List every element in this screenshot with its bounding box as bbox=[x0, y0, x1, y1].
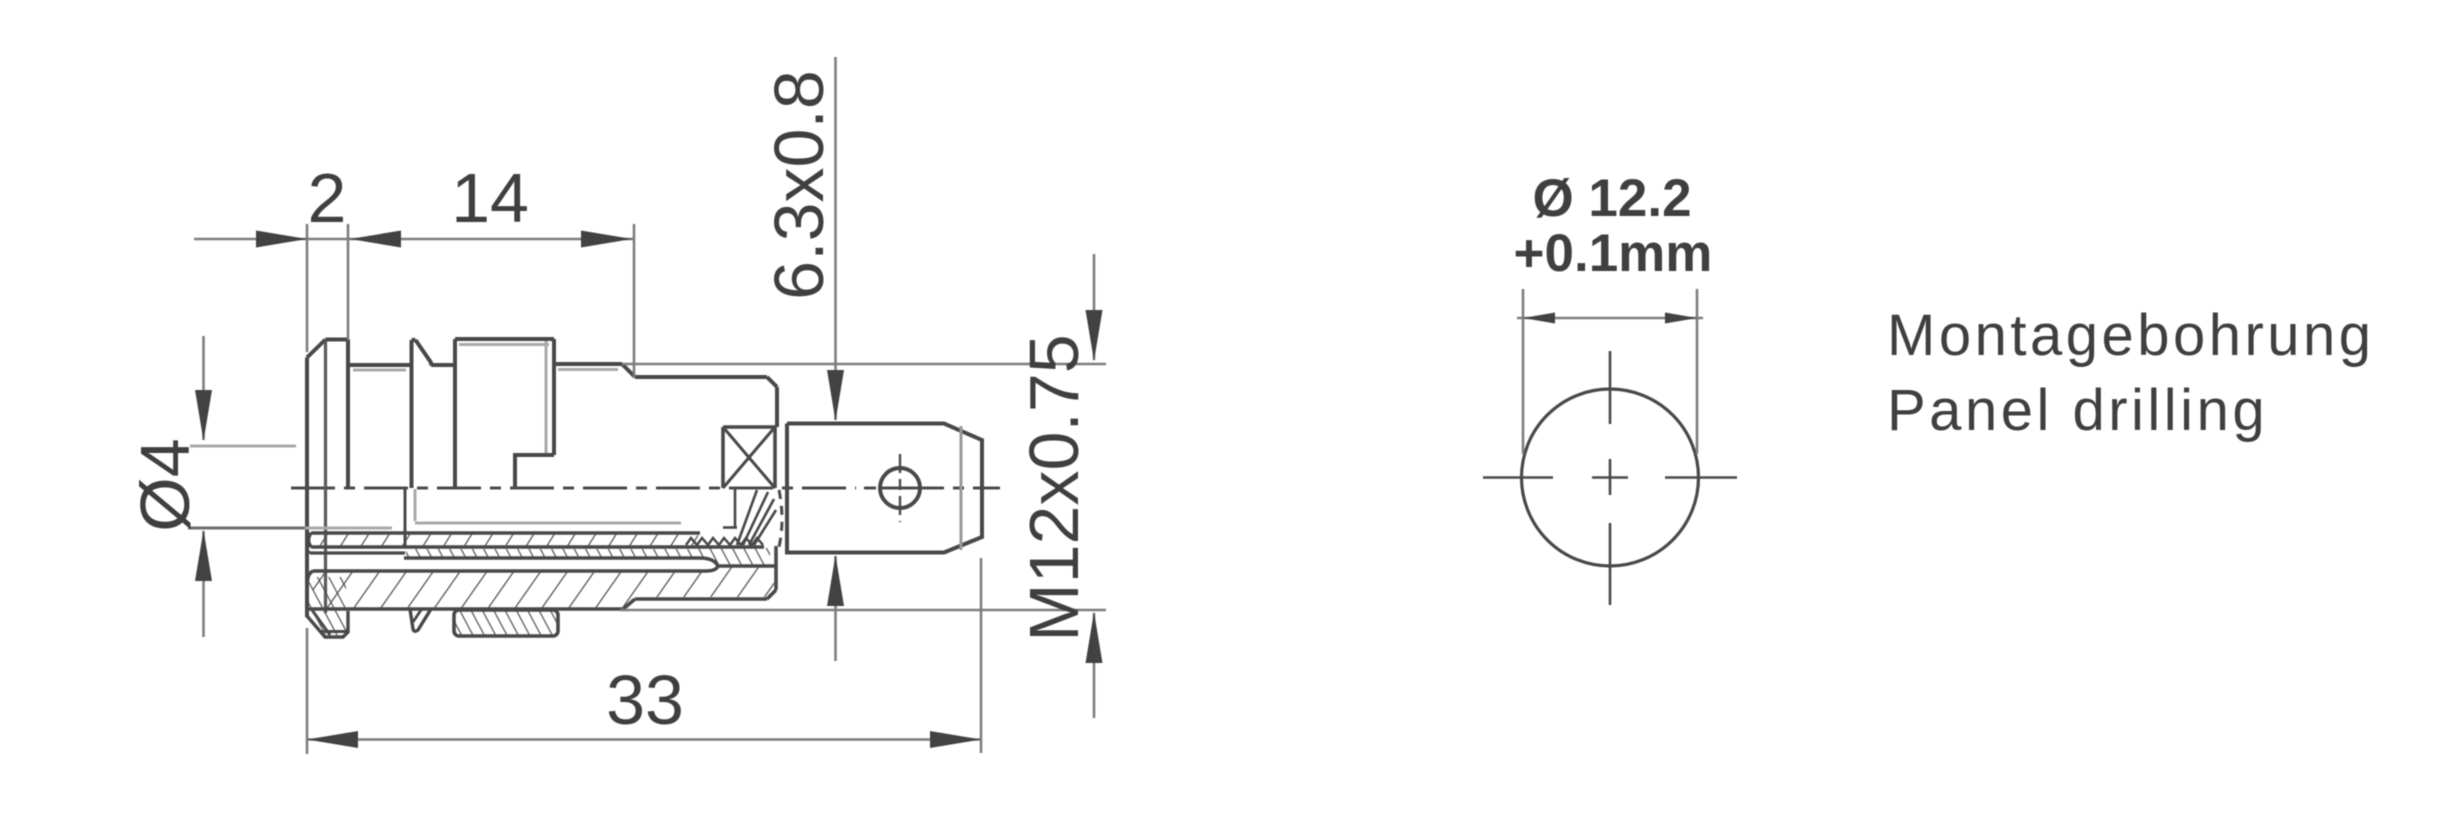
arrow 33 left bbox=[307, 731, 358, 748]
svg-text:6.3x0.8: 6.3x0.8 bbox=[760, 70, 838, 300]
circle dim arrows bbox=[1523, 313, 1697, 324]
crimp cone fan lines bbox=[723, 489, 776, 545]
dim 33 ext line left bbox=[306, 628, 309, 754]
circle dim texts bbox=[1514, 169, 1713, 283]
ring top edge bbox=[412, 338, 416, 342]
dimension thin lines bbox=[194, 57, 1106, 754]
dim 6.3 vertical line top bbox=[834, 57, 837, 420]
barrel bottom step chamfer bbox=[622, 599, 635, 610]
circle dim ext lines bbox=[1517, 289, 1703, 454]
block left face bbox=[453, 339, 457, 488]
flat tab terminal outline bbox=[787, 424, 982, 553]
centerline dash near hole bbox=[864, 487, 876, 490]
M12 ext line bottom bbox=[620, 609, 1106, 612]
block top edge bbox=[455, 337, 554, 341]
svg-text:Ø4: Ø4 bbox=[126, 438, 204, 531]
rear barrel lower right face bbox=[774, 546, 778, 590]
block top light edge bbox=[459, 343, 549, 346]
svg-text:14: 14 bbox=[451, 159, 529, 237]
ring tooth section bbox=[410, 609, 431, 631]
socket body upper outline bbox=[307, 339, 777, 617]
dim 33 ext line right bbox=[980, 558, 983, 753]
crimp sleeve section hatch below centerline bbox=[690, 548, 770, 566]
flange foot hatch bbox=[309, 577, 346, 635]
dimension texts left view bbox=[126, 70, 1093, 739]
M12 ext line top bbox=[622, 363, 1106, 366]
neck bottom edge / shell bottom bbox=[307, 607, 622, 611]
centerline main axis bbox=[291, 487, 856, 490]
arrow M12 down bbox=[1086, 310, 1103, 361]
rear barrel bottom chamfer bbox=[767, 590, 776, 599]
crimp square with X bbox=[723, 427, 775, 488]
dim 2-14 line bbox=[307, 238, 634, 241]
dim M12 vertical line bottom bbox=[1093, 613, 1096, 718]
dim 2 leader tail bbox=[194, 238, 307, 241]
flange right face bbox=[346, 340, 350, 489]
arrows bbox=[195, 231, 1103, 749]
tab hole vertical crosshair bbox=[899, 454, 901, 522]
sleeve band A hatch bbox=[313, 535, 698, 546]
panel drilling circle bbox=[1522, 389, 1699, 566]
arrow dim14 left bbox=[350, 231, 401, 248]
sleeve band B bottom edge bbox=[404, 558, 775, 566]
flange front face bbox=[305, 358, 309, 618]
sleeve band B hatch bbox=[406, 549, 698, 557]
secondary light edges bbox=[196, 341, 681, 613]
dim O4 vertical line top bbox=[202, 336, 205, 440]
shell left cap bbox=[308, 571, 314, 581]
serration zigzag bbox=[686, 538, 763, 545]
arrow dim14 right bbox=[581, 231, 632, 248]
O4 lower leader dark bbox=[188, 527, 305, 530]
svg-text:Ø 12.2: Ø 12.2 bbox=[1532, 169, 1691, 228]
rear barrel top surface bbox=[635, 375, 767, 379]
shell band outline bbox=[307, 546, 776, 610]
centerline solid across hole bbox=[882, 487, 1000, 490]
dim O4 vertical line bottom bbox=[202, 531, 205, 637]
barrel top light edge bbox=[558, 368, 618, 371]
svg-text:M12x0.75: M12x0.75 bbox=[1015, 334, 1093, 641]
svg-text:33: 33 bbox=[606, 661, 684, 739]
arrow 33 right bbox=[930, 731, 981, 748]
circle crosshair horizontal bbox=[1483, 476, 1553, 479]
flange top chamfer bbox=[307, 340, 326, 358]
neck top surface bbox=[348, 363, 412, 367]
neck top surface 2 bbox=[431, 363, 455, 367]
O4 gray leaders bbox=[190, 445, 296, 448]
barrel step chamfer bbox=[622, 364, 635, 377]
arrow M12 up bbox=[1086, 612, 1103, 663]
captions bbox=[1887, 303, 2375, 443]
sleeve slot light edge bbox=[414, 489, 417, 521]
bore light line lower left bbox=[196, 527, 392, 530]
arrow 6.3 down bbox=[827, 370, 844, 421]
dim M12 vertical line top bbox=[1093, 254, 1096, 360]
dim 6.3 vertical line bottom bbox=[834, 556, 837, 661]
rear barrel right face bbox=[775, 387, 779, 427]
bore light line lower right bbox=[415, 522, 681, 525]
shell top edge bbox=[313, 566, 718, 571]
block notch step bbox=[515, 455, 554, 488]
dim 2 ext line left bbox=[306, 224, 309, 352]
arrow O4 up bbox=[195, 530, 212, 581]
dim 14 ext line right bbox=[633, 224, 636, 378]
tab hole bbox=[880, 468, 920, 508]
neck light edge bbox=[353, 369, 406, 372]
dim 33 line bbox=[307, 738, 981, 741]
svg-text:+0.1mm: +0.1mm bbox=[1514, 224, 1713, 283]
svg-text:Panel drilling: Panel drilling bbox=[1887, 378, 2268, 443]
sleeve lower lip line left bbox=[310, 551, 405, 554]
block bottom bar section bbox=[454, 610, 558, 636]
rear barrel chamfer bbox=[767, 377, 777, 387]
circle dim line bbox=[1517, 317, 1703, 320]
dim 2/14 ext line shared bbox=[347, 224, 350, 340]
tab fold line bbox=[960, 426, 963, 550]
svg-text:2: 2 bbox=[308, 159, 347, 237]
flange foot section bbox=[307, 610, 348, 637]
ring left face bbox=[410, 340, 414, 488]
ring right chamfer bbox=[416, 340, 432, 366]
circle crosshair vertical bbox=[1483, 351, 1737, 605]
thread barrel top edge bbox=[554, 362, 622, 366]
flange chamfer projection edge bbox=[324, 341, 327, 613]
6.3 witness ticks on tab bbox=[823, 424, 849, 553]
lower section: sleeve band A outline bbox=[307, 489, 775, 566]
block right light edge bbox=[545, 341, 548, 453]
shell band hatch bbox=[313, 567, 774, 609]
rear barrel bottom surface bbox=[635, 597, 767, 601]
arrow O4 down bbox=[195, 390, 212, 441]
hidden crimp edge dashed bbox=[779, 490, 782, 547]
arrow 6.3 up bbox=[827, 555, 844, 606]
svg-text:Montagebohrung: Montagebohrung bbox=[1887, 303, 2375, 368]
sleeve slot edge bbox=[404, 489, 407, 548]
arrow dim2 right bbox=[256, 231, 307, 248]
flange top edge bbox=[326, 338, 349, 342]
block right face bbox=[552, 339, 556, 455]
